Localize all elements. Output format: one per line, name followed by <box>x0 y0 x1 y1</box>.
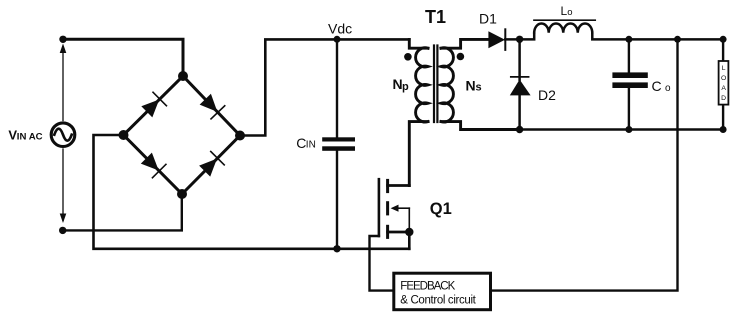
transformer T1 phase dot secondary <box>457 53 465 61</box>
svg-text:p: p <box>402 81 409 93</box>
svg-text:o: o <box>567 7 572 18</box>
diode bridge bottom-left (anode left node, cathode bottom node) <box>140 151 166 177</box>
label Co <box>652 78 672 94</box>
node AC bottom terminal <box>59 227 66 234</box>
wire bridge right node to Vdc rail <box>240 39 409 135</box>
node D1 cathode <box>516 36 523 43</box>
node load top <box>720 36 727 43</box>
svg-text:Q1: Q1 <box>430 200 452 218</box>
svg-text:D: D <box>721 95 726 102</box>
node AC top terminal <box>59 36 66 43</box>
capacitor Co <box>612 39 647 129</box>
wire AC top to bridge top <box>63 39 183 76</box>
node Q1 source <box>405 228 413 236</box>
label CIN <box>296 135 316 151</box>
wire bridge left node to bottom rail <box>94 135 410 249</box>
transformer T1 phase dot primary <box>404 53 412 61</box>
diode bridge bottom-right (anode bottom node, cathode right node) <box>198 151 224 177</box>
node Co top <box>625 36 632 43</box>
node bridge left <box>119 130 129 140</box>
node bridge bottom <box>177 189 187 199</box>
svg-text:& Control circuit: & Control circuit <box>400 295 476 307</box>
transformer T1 core <box>434 46 437 123</box>
label FEEDBACK & Control circuit <box>400 280 476 306</box>
transistor Q1 MOSFET <box>379 179 409 249</box>
svg-text:C: C <box>652 78 662 94</box>
diode D2 (freewheeling) <box>510 39 531 129</box>
node feedback tap <box>674 36 681 43</box>
label VIN AC <box>8 128 42 143</box>
node load bottom <box>720 126 727 133</box>
svg-text:N: N <box>466 78 476 94</box>
wire feedback box to output tap <box>491 39 678 290</box>
svg-text:A: A <box>721 85 726 92</box>
node D2 anode rail <box>516 126 523 133</box>
svg-text:s: s <box>476 82 482 94</box>
AC source V_IN_AC <box>51 44 75 224</box>
load resistor <box>719 39 729 129</box>
node Co bottom <box>625 126 632 133</box>
node bridge top <box>178 71 188 81</box>
svg-text:O: O <box>721 75 726 82</box>
node Vdc <box>334 36 341 43</box>
inductor Lo <box>520 20 724 39</box>
svg-text:L: L <box>722 65 726 72</box>
diode bridge top-right (anode top node, cathode right node) <box>198 93 224 119</box>
node bridge right <box>235 131 245 141</box>
svg-text:D2: D2 <box>538 87 556 103</box>
transformer T1 secondary winding Ns <box>441 39 520 129</box>
wire Q1 gate to feedback box <box>370 236 394 291</box>
svg-text:Vdc: Vdc <box>328 20 352 36</box>
svg-text:o: o <box>665 83 671 94</box>
svg-text:IN: IN <box>306 140 316 151</box>
wire output bottom rail <box>461 128 723 130</box>
svg-text:T1: T1 <box>425 7 446 27</box>
feedback control box <box>394 273 491 310</box>
wire AC bottom to bridge bottom <box>63 194 182 230</box>
svg-text:IN AC: IN AC <box>17 132 43 143</box>
capacitor CIN <box>322 39 355 249</box>
label Ns <box>466 78 482 94</box>
diode bridge top-left (anode left node, cathode top node) <box>140 92 166 118</box>
svg-text:D1: D1 <box>479 10 497 26</box>
label LOAD <box>721 65 726 102</box>
bridge rectifier diamond wires <box>124 76 241 194</box>
label Np <box>393 76 410 93</box>
diode D1 <box>488 29 519 50</box>
label Lo <box>561 4 573 18</box>
transformer T1 primary winding Np <box>409 39 428 185</box>
svg-text:FEEDBACK: FEEDBACK <box>400 280 455 292</box>
node CIN bottom rail <box>333 245 340 252</box>
